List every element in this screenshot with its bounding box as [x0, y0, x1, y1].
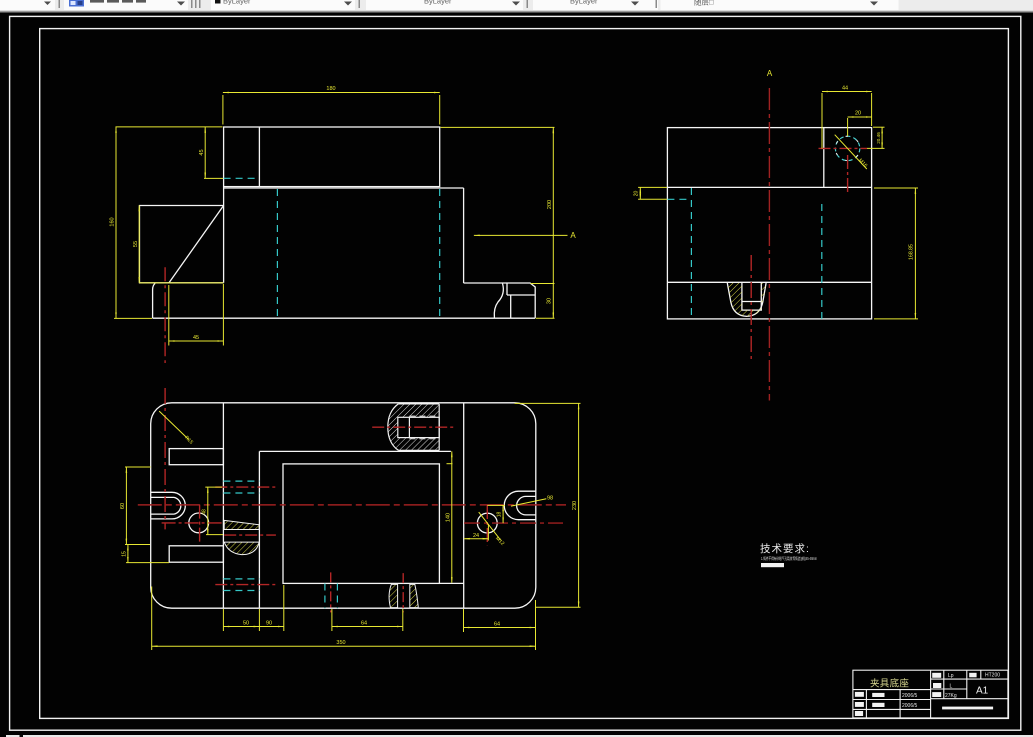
- dim 55 wing: [138, 205, 140, 282]
- left circle cross: [162, 522, 224, 524]
- svg-text:168.85: 168.85: [909, 244, 915, 260]
- svg-text:20.46: 20.46: [876, 132, 881, 144]
- bottom lug left strip: [389, 584, 398, 607]
- dim 20 top: [848, 116, 872, 118]
- side view dimensions: [638, 92, 918, 319]
- svg-text:L: L: [950, 683, 953, 689]
- front view: left edge of body: [223, 187, 225, 283]
- dim 168.85: [914, 188, 916, 319]
- leader M16: [835, 135, 867, 169]
- front view: bolt upper: [506, 284, 508, 296]
- front view: lower block top edge: [224, 187, 464, 189]
- dim 30 right: [531, 283, 555, 285]
- U-slot centerline: [750, 255, 752, 362]
- separator grips: [59, 0, 61, 8]
- svg-text:随层□: 随层□: [694, 0, 714, 7]
- plan: bottom-center sectioned lug: [389, 584, 418, 607]
- side view: U-slot inner line: [742, 301, 761, 303]
- side view: tapped hole circle: [835, 136, 859, 160]
- dim 24 right circle: [464, 538, 488, 540]
- hidden: top block base: [224, 177, 260, 179]
- svg-text:30: 30: [547, 298, 553, 304]
- svg-text:27Kg: 27Kg: [945, 693, 957, 699]
- svg-text:A: A: [570, 231, 576, 240]
- dim 64 bottom left: [332, 626, 403, 628]
- front view: bolt seat line: [507, 294, 535, 296]
- circle centerline vertical: [847, 155, 849, 195]
- front view: bottom edge: [153, 317, 536, 319]
- left rows: [853, 689, 931, 691]
- linetype combo: [366, 0, 523, 10]
- right columns: [943, 670, 945, 699]
- hidden hole centerline lower: [224, 534, 276, 536]
- plan dimensions (yellow): [125, 403, 581, 650]
- svg-text:64: 64: [361, 621, 367, 627]
- combo far-left end: [0, 0, 55, 10]
- left slot vertical centerline: [164, 388, 166, 529]
- plan: right U-slot inner: [517, 496, 536, 515]
- side view centerlines (red): [751, 88, 867, 401]
- dim 45 upper: [204, 127, 206, 178]
- plan: vertical left column line: [222, 403, 224, 608]
- svg-text:45: 45: [193, 335, 199, 341]
- dim 18 right circle: [502, 505, 504, 523]
- front view: bolt lower edge: [510, 295, 512, 318]
- plan: left locating circle: [189, 513, 209, 533]
- plan: left U-slot inner: [151, 497, 181, 514]
- dim hole spacing bracket: [207, 487, 209, 534]
- svg-text:ByLayer: ByLayer: [424, 0, 452, 5]
- stud lower bowl: [224, 542, 259, 555]
- svg-text:A1: A1: [976, 686, 989, 697]
- svg-text:55: 55: [133, 241, 139, 247]
- front view centerline: [164, 267, 166, 363]
- dim 44: [822, 91, 872, 93]
- svg-text:2006/5: 2006/5: [902, 693, 918, 699]
- main horizontal centerline: [138, 504, 566, 506]
- svg-text:50: 50: [243, 621, 249, 627]
- svg-text:350: 350: [336, 640, 345, 646]
- front view dimensions (yellow): [114, 93, 568, 346]
- side view: outer rect: [667, 128, 871, 319]
- lug inner rectangle: [398, 417, 439, 437]
- svg-text:44: 44: [842, 86, 848, 92]
- technical requirements text: [760, 542, 817, 567]
- right circle cross: [464, 522, 563, 524]
- dim 140: [451, 451, 453, 582]
- svg-text:Lp: Lp: [948, 673, 954, 679]
- leader 98: [511, 499, 546, 506]
- svg-text:A: A: [767, 69, 773, 78]
- bottom lug centerline: [402, 573, 404, 612]
- dim 60 left: [125, 467, 127, 545]
- dim 15 left: [127, 545, 129, 563]
- front view: bolt detail break line: [494, 284, 503, 318]
- svg-text:230: 230: [572, 501, 578, 510]
- dim 45 bottom: [169, 340, 224, 342]
- plan: step top line: [259, 450, 451, 452]
- svg-text:2006/5: 2006/5: [902, 703, 918, 709]
- side view: U-slot inner hole: [742, 283, 761, 310]
- lug centerline: [372, 426, 455, 428]
- svg-text:技术要求:: 技术要求:: [760, 542, 810, 555]
- title block outer: [853, 670, 1008, 718]
- main section centerline: [768, 88, 770, 401]
- svg-text:ByLayer: ByLayer: [223, 0, 251, 5]
- plot style combo: [661, 0, 899, 10]
- side view: slot hatching: [727, 283, 766, 316]
- ByLayer color combo: [211, 0, 355, 10]
- hidden: left slot vertical: [690, 188, 692, 319]
- svg-text:18: 18: [497, 512, 503, 518]
- front view: top block outline: [224, 127, 440, 187]
- svg-text:60: 60: [120, 503, 126, 509]
- dim 64 bottom right: [464, 627, 536, 629]
- hidden: left slot: [276, 189, 278, 318]
- plan: left-center sectioned stud: [224, 520, 259, 554]
- front view: wing diagonal: [169, 206, 224, 283]
- front view: left wing with chamfer: [140, 206, 224, 283]
- front view: right step: [464, 283, 536, 318]
- svg-text:20: 20: [634, 191, 640, 197]
- svg-text:15: 15: [122, 551, 128, 557]
- side view: base top line: [667, 281, 871, 283]
- lug inner divider: [408, 417, 410, 437]
- plan: vertical second column line: [258, 451, 260, 608]
- bottom lug right strip: [410, 584, 419, 607]
- side view: upper body line: [667, 186, 871, 188]
- leader M12: [479, 512, 501, 540]
- svg-text:140: 140: [445, 513, 451, 522]
- svg-text:HT200: HT200: [985, 673, 1000, 679]
- dim 20 left: [639, 187, 641, 199]
- plan hidden lines (cyan): [223, 481, 337, 608]
- svg-text:48: 48: [201, 509, 207, 515]
- svg-text:24: 24: [473, 533, 479, 539]
- redacted name blocks: [855, 673, 993, 716]
- svg-text:1.铸件不得有砂眼气孔裂纹等铸造缺陷45-48mm: 1.铸件不得有砂眼气孔裂纹等铸造缺陷45-48mm: [761, 555, 817, 562]
- svg-text:200: 200: [547, 200, 553, 209]
- plan: top-center sectioned lug: [372, 404, 455, 451]
- svg-text:64: 64: [494, 622, 500, 628]
- plan: inner pocket rect: [283, 464, 439, 584]
- dim 160 left: [115, 127, 117, 319]
- hidden hole centerline upper: [215, 486, 275, 488]
- front view: left base edge with fillet: [153, 283, 156, 318]
- title block main vertical: [930, 670, 932, 718]
- dim 20.46: [881, 128, 883, 149]
- plan: right U-slot outer: [504, 491, 536, 520]
- dim 200 right: [552, 127, 554, 318]
- side view: U-slot outline: [727, 283, 766, 316]
- svg-text:90: 90: [266, 621, 272, 627]
- plan: right locating circle: [477, 513, 497, 533]
- lug dashed hidden lines: [409, 415, 439, 417]
- lineweight combo: [533, 0, 658, 10]
- svg-text:20: 20: [855, 111, 861, 117]
- svg-text:ByLayer: ByLayer: [570, 0, 598, 5]
- top extension lines: [116, 126, 223, 128]
- lug outer C boundary: [388, 404, 439, 451]
- plan: vertical right column line: [463, 403, 465, 608]
- plan centerlines (red): [138, 388, 566, 612]
- plan: lower-left notch: [169, 546, 223, 562]
- hidden hole lower-left: [223, 578, 259, 580]
- side view: inner vertical: [823, 128, 825, 188]
- front view: top block divider: [258, 127, 260, 187]
- hidden: left slot horizontal: [667, 198, 691, 200]
- bottom hole centerline: [330, 572, 332, 612]
- hidden: right slot vertical: [821, 204, 823, 319]
- right rows: [931, 678, 1008, 680]
- side view hidden lines: [667, 188, 821, 319]
- front view hidden lines: [224, 178, 440, 317]
- svg-text:45: 45: [199, 149, 205, 155]
- plan: outer rounded rect: [151, 403, 536, 608]
- svg-text:夹具底座: 夹具底座: [870, 678, 909, 690]
- plan: pocket bottom extension: [439, 582, 463, 584]
- plan: left U-slot outer: [151, 492, 186, 519]
- hidden hole upper-left: [223, 480, 259, 482]
- leader R15: [159, 411, 189, 440]
- stud upper band: [224, 520, 259, 529]
- bottom dims 50 / 90: [223, 626, 259, 628]
- dim 350 overall: [152, 645, 536, 647]
- hidden: right slot: [439, 189, 441, 318]
- hidden hole centerline bottom-left: [215, 584, 276, 586]
- front view: right inner edge: [463, 188, 465, 283]
- hidden hole bottom-center: [324, 584, 326, 609]
- dim 180 line: [223, 92, 440, 94]
- svg-text:160: 160: [110, 217, 116, 226]
- section line A: [474, 234, 568, 236]
- dim 230 right: [578, 403, 580, 607]
- toolbar strip (top, partially cut off): [0, 0, 1033, 14]
- plan: upper-left notch: [169, 449, 223, 465]
- left columns: [865, 690, 867, 718]
- bottom white strip (command window top): [6, 735, 1033, 737]
- layer combo: [64, 0, 188, 10]
- circle centerline horizontal: [819, 147, 868, 149]
- svg-text:98: 98: [547, 496, 553, 502]
- svg-text:180: 180: [326, 86, 335, 92]
